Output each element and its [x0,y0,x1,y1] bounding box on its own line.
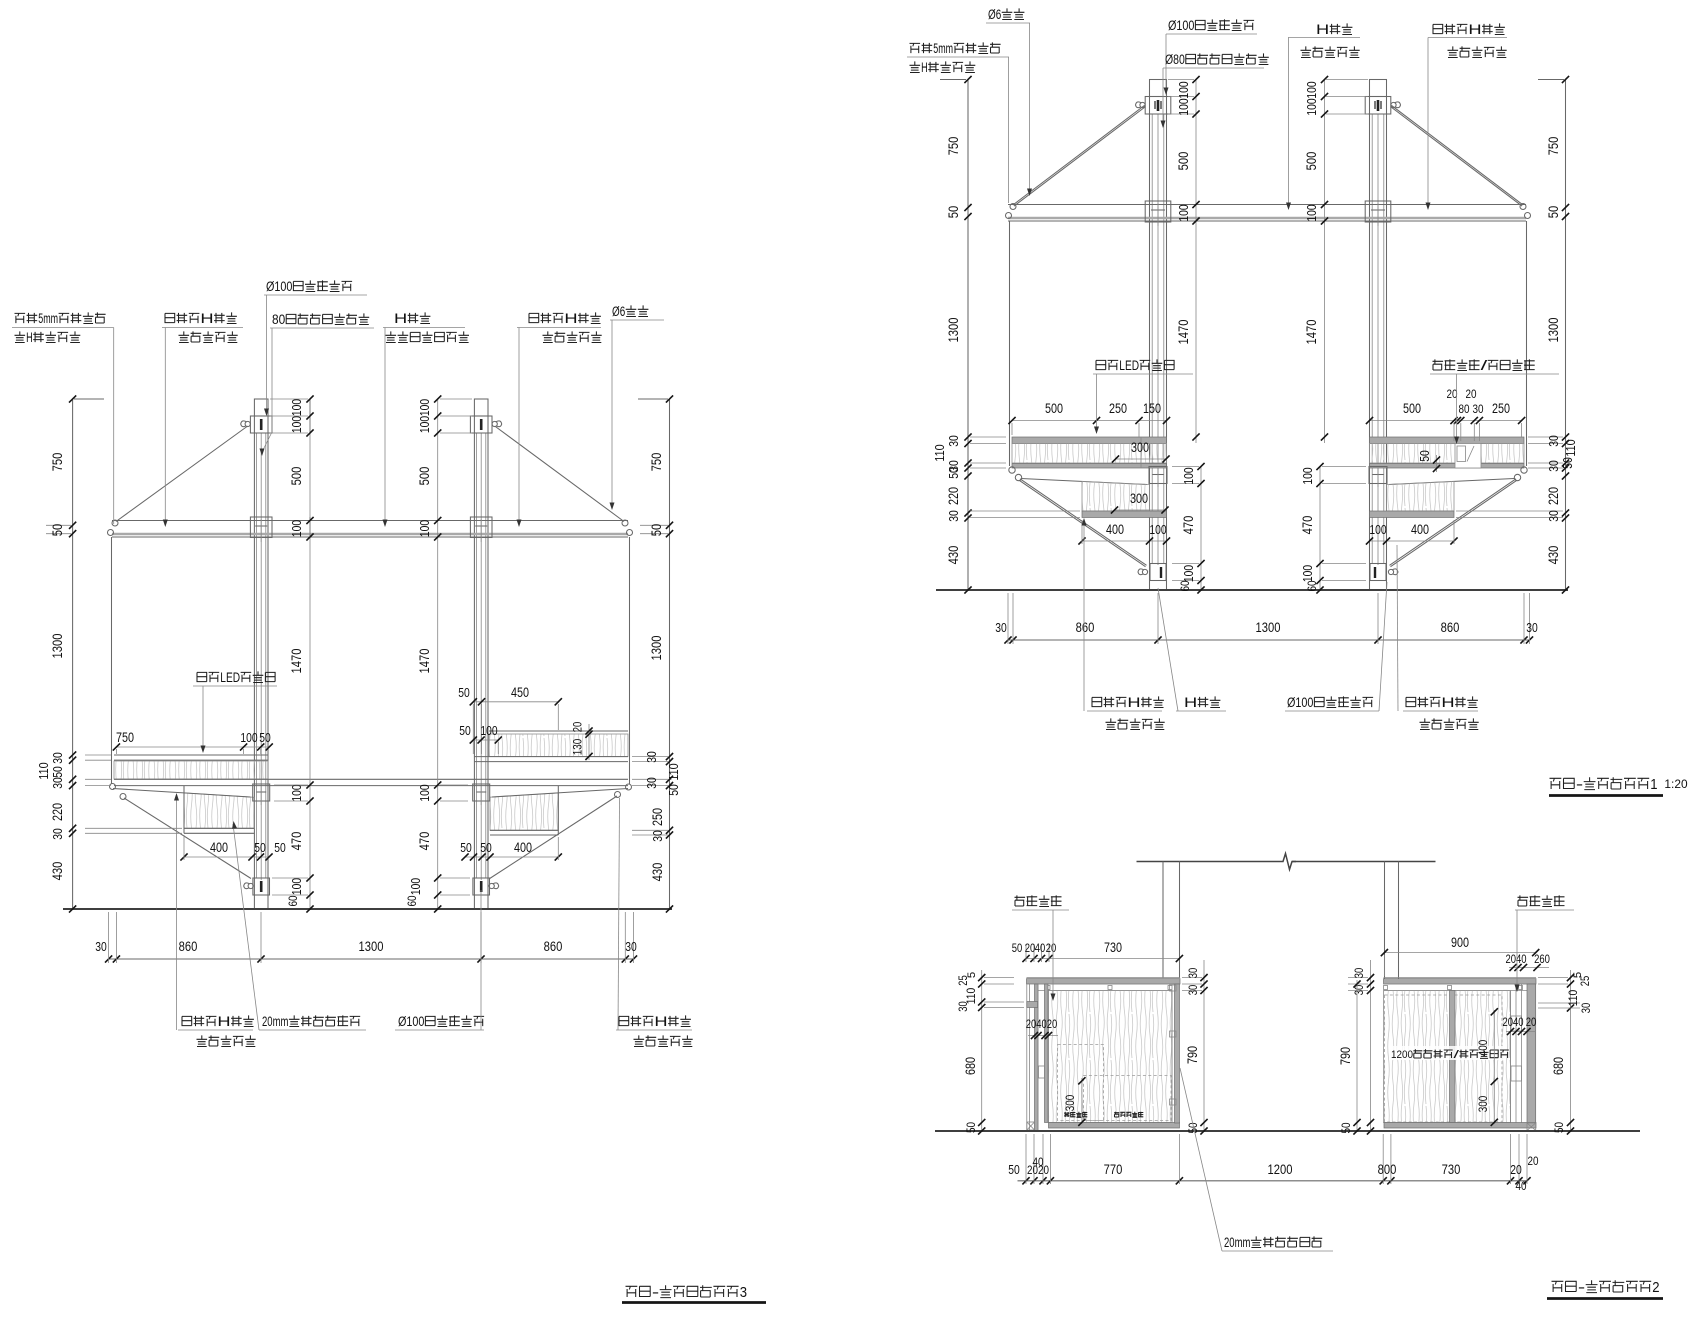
dim column left of right post [437,399,439,909]
svg-text:60: 60 [1178,580,1192,591]
svg-text:50: 50 [1417,450,1432,462]
column top cap [254,399,268,416]
svg-text:110: 110 [666,763,681,780]
svg-text:1300: 1300 [359,938,384,954]
svg-text:30: 30 [956,1001,970,1012]
svg-text:30: 30 [1352,967,1366,978]
svg-text:2040: 2040 [1503,1015,1524,1029]
steel plate under counter [1370,464,1525,469]
svg-text:H: H [1127,695,1140,710]
dim 100/400 right apron [1370,540,1455,542]
svg-text:H: H [26,330,33,345]
svg-text:110: 110 [932,444,947,461]
svg-text:110: 110 [36,762,51,779]
svg-text:220: 220 [946,487,961,505]
LED groove line [1140,437,1142,468]
svg-text:400: 400 [210,840,228,855]
svg-text:20mm: 20mm [1224,1235,1250,1250]
dim column left of right post [1324,80,1326,444]
svg-text:Ø6: Ø6 [612,304,625,319]
svg-text:30: 30 [50,752,65,764]
cabinet door panel right [1171,991,1173,1123]
left counter top slab [114,754,268,756]
lower tie rod left [1019,480,1146,567]
dim column right of left post [309,399,311,433]
bottom dim row [1018,1180,1528,1182]
svg-text:150: 150 [1143,401,1161,416]
svg-text:20: 20 [1047,1017,1058,1031]
dim 400/300 fridge [1493,1010,1495,1124]
leader to left tip [113,328,115,525]
bottom cap sleeve [1150,564,1166,581]
dim stack right [669,399,671,909]
svg-text:-: - [652,1285,659,1301]
left apron wood panel [184,793,254,828]
svg-text:50: 50 [460,840,472,855]
svg-text:H: H [921,60,928,75]
left cabinet counter slab [1027,979,1181,984]
ground line [935,1130,1640,1132]
svg-text:40: 40 [1516,1179,1527,1193]
svg-text:50: 50 [666,784,681,796]
svg-text:1300: 1300 [945,317,961,342]
svg-text:30: 30 [1546,435,1561,447]
cabinet floor slab [1384,1123,1536,1129]
lower tie rod right [1390,479,1517,566]
dim 130/20 right band [588,724,590,760]
svg-text:2020: 2020 [1027,1163,1049,1177]
wall socket [1039,1066,1045,1078]
svg-text:30: 30 [1186,967,1200,978]
dim 790/50 left [1356,980,1358,1131]
svg-text:100: 100 [240,730,257,745]
label: custom 5mm steel plate welded to H steel [15,313,26,323]
dashed appliance B (pump) [1084,1076,1172,1121]
title elevation 3 [626,1286,638,1297]
right counter raised wood band [489,734,628,757]
svg-text:100: 100 [1176,98,1191,115]
svg-text:30: 30 [625,939,637,954]
svg-text:400: 400 [1106,522,1124,537]
sleeve connector box top (D100) [470,416,492,433]
svg-text:30: 30 [1546,510,1561,522]
counter slab (gray) [1012,437,1167,444]
svg-text:220: 220 [1546,487,1561,505]
sleeve connector at counter [1149,467,1167,484]
svg-text:5mm: 5mm [933,41,953,56]
column top cap [1370,80,1387,97]
dim 50/100 right counter [473,739,498,741]
base X block [1027,1122,1035,1130]
beam end pins left [112,520,118,526]
dim 300 lower left [1115,509,1166,511]
svg-text:-: - [1578,1280,1585,1296]
svg-text:30: 30 [995,620,1007,635]
svg-text:100: 100 [480,723,497,738]
svg-text:30: 30 [644,751,659,763]
dim 300 upper left [1116,458,1167,460]
svg-text:H: H [564,311,577,326]
column (80 round, white fluorocarbon) [473,416,475,909]
svg-text:100: 100 [289,399,304,416]
dim right of left cabinet [1203,960,1205,1131]
right cabinet counter slab [1384,979,1537,984]
right counter slab [474,756,628,758]
svg-text:1470: 1470 [288,648,304,673]
beam end pins left [1010,204,1016,210]
label: variable section H steel welded to post (top left) [165,313,175,322]
svg-text:30: 30 [644,777,659,789]
svg-text:400: 400 [514,840,532,855]
ceiling beam line with break [1137,861,1280,863]
svg-text:100: 100 [1176,204,1191,221]
slanted steel plate left [1021,479,1147,485]
svg-text:300: 300 [1130,491,1148,506]
svg-text:50: 50 [49,524,65,537]
right hanging column [1384,862,1386,980]
svg-text:-: - [1576,777,1583,793]
counter slab (gray) [1370,437,1525,444]
sleeve connector box top [1365,97,1391,115]
tiny equipment texts [1064,1112,1069,1117]
sleeve connector at beam [250,517,272,538]
svg-text:750: 750 [116,730,134,745]
dim row top left cabinet [1026,958,1179,960]
sleeve connector at counter [473,784,490,801]
dim 400/50/50 left apron [184,856,269,858]
svg-text:50: 50 [254,840,266,855]
svg-text:H: H [1184,695,1197,710]
svg-text:100: 100 [1304,81,1319,98]
svg-text:LED: LED [220,670,240,685]
svg-text:H: H [200,311,213,326]
middle divider [1450,991,1456,1123]
svg-text:100: 100 [289,878,304,895]
right cabinet under-rail [1384,983,1528,985]
label: concealed LED strip [1096,360,1106,369]
dim 50/450 right counter [473,701,558,703]
svg-text:/: / [1481,358,1488,373]
svg-text:500: 500 [416,467,432,486]
svg-text:2: 2 [1652,1280,1659,1296]
svg-text:H: H [654,1014,667,1029]
bottom cap sleeve [473,878,490,895]
svg-text:50: 50 [480,840,492,855]
svg-text:470: 470 [1299,516,1315,535]
right shelf slab [1370,511,1455,518]
svg-text:750: 750 [945,137,961,156]
svg-text:30: 30 [50,828,65,840]
svg-text:30: 30 [95,939,107,954]
svg-text:60: 60 [405,895,419,906]
svg-text:50: 50 [648,524,664,537]
svg-text:1470: 1470 [416,648,432,673]
svg-text:1200: 1200 [1391,1049,1413,1061]
svg-text:110: 110 [1566,990,1580,1006]
svg-text:50: 50 [459,723,471,738]
svg-text:1300: 1300 [1256,619,1281,635]
left apron wood [1082,481,1150,511]
svg-text:750: 750 [49,453,65,472]
svg-text:30: 30 [1526,620,1538,635]
svg-text:100: 100 [1369,522,1386,537]
svg-text:25: 25 [1578,975,1592,986]
svg-text:30: 30 [1546,460,1561,472]
svg-text:500: 500 [1403,401,1421,416]
svg-text:220: 220 [50,803,65,821]
steel plate under counter [1012,464,1167,469]
svg-text:1: 1 [1650,777,1657,793]
svg-text:30: 30 [650,830,665,842]
svg-text:250: 250 [1492,401,1510,416]
svg-text:430: 430 [1545,546,1561,565]
left cabinet top line [1027,977,1181,979]
svg-text:50: 50 [945,206,961,219]
svg-text:50: 50 [458,685,470,700]
svg-text:20: 20 [1526,1015,1537,1029]
svg-text:500: 500 [1175,152,1191,171]
svg-text:30: 30 [1579,1002,1593,1013]
dim 20/40/20 right wall [1506,1031,1536,1033]
H beam (100) [112,520,628,522]
svg-text:470: 470 [288,832,304,851]
lower tie rod right [490,796,617,879]
svg-text:750: 750 [648,453,664,472]
drawing: front bar section 1 [907,7,1688,796]
sleeve connector at counter [253,784,270,801]
svg-text:100: 100 [417,520,432,537]
svg-text:100: 100 [1149,522,1166,537]
svg-text:80: 80 [272,312,285,327]
svg-text:730: 730 [1104,940,1122,955]
svg-text:Ø6: Ø6 [988,7,1001,22]
svg-text:860: 860 [1441,619,1460,635]
svg-text:20: 20 [571,721,585,732]
svg-text:50: 50 [946,467,961,479]
dim 50 right slab [1436,455,1438,472]
label: variable section H steel [1433,24,1443,33]
svg-text:25: 25 [956,975,970,986]
svg-text:1300: 1300 [648,635,664,660]
dim 300 pump [1081,1078,1083,1124]
label: concealed LED strip [197,672,207,681]
svg-text:H: H [1441,695,1454,710]
svg-text:50: 50 [50,766,65,778]
right cabinet top line [1384,977,1537,979]
svg-text:H: H [1468,22,1481,37]
dim column right of left post [1195,80,1197,444]
bottom label: variable section H steel (left) [1092,697,1102,706]
H beam [1008,204,1526,206]
right apron wood [1387,481,1455,511]
column (80 round, white fluorocarbon) [253,416,255,909]
svg-text:Ø100: Ø100 [266,279,292,294]
beam end pins right [622,520,628,526]
svg-text:400: 400 [1411,522,1429,537]
svg-text:20: 20 [1510,1162,1522,1177]
dim row mid wall [1028,1035,1058,1037]
outer edge verticals [111,537,113,784]
svg-text:50: 50 [1339,1122,1353,1133]
svg-text:50: 50 [259,730,271,745]
ground line [936,589,1568,591]
svg-text:50: 50 [1012,941,1023,955]
svg-text:100: 100 [408,878,423,895]
counter tip pins right [1521,467,1527,473]
sleeve connector at counter [1369,467,1387,484]
svg-text:40: 40 [1036,1017,1047,1031]
svg-text:450: 450 [511,685,529,700]
svg-text:50: 50 [1552,1122,1566,1133]
svg-text:100: 100 [1300,565,1315,582]
svg-text:LED: LED [1119,358,1139,373]
svg-text:100: 100 [1181,467,1196,484]
svg-text:250: 250 [1109,401,1127,416]
bottom dim row [1008,639,1530,641]
svg-text:430: 430 [649,863,665,882]
lower tie rod left [124,798,251,879]
left cabinet under-rail [1035,983,1173,985]
cabinet floor slab [1049,1123,1180,1129]
title section 1 [1550,778,1562,789]
socket recess right counter [1455,444,1481,469]
svg-text:30: 30 [946,510,961,522]
steel plate double line counter level [114,778,628,780]
svg-text:H: H [1316,22,1329,37]
svg-text:100: 100 [289,520,304,537]
bottom cap sleeve [253,878,270,895]
svg-text:5mm: 5mm [38,311,58,326]
svg-text:300: 300 [1063,1095,1077,1111]
drawing: front bar section 2 [935,854,1663,1299]
svg-text:680: 680 [1551,1057,1566,1075]
drawing: front bar side elevation 3 [12,279,766,1303]
svg-text:Ø100: Ø100 [1168,18,1194,33]
leader up to plate [176,796,178,1030]
svg-text:Ø100: Ø100 [398,1014,424,1029]
svg-text:110: 110 [1563,439,1578,456]
dim lower right of left post [1200,467,1202,591]
svg-text:1300: 1300 [49,633,65,658]
svg-text:50: 50 [274,840,286,855]
svg-text:860: 860 [544,938,563,954]
right apron wood panel [490,793,558,830]
svg-text:100: 100 [417,416,432,433]
sleeve connector at beam [470,517,492,538]
svg-text:40: 40 [1035,941,1046,955]
label: custom 5mm plate [910,43,921,53]
left cabinet outer side panel [1026,984,1028,1131]
dim 500/250/150 left counter [1012,420,1167,422]
tie rod top left (D6) [116,426,248,522]
svg-text:100: 100 [289,416,304,433]
slanted steel plate right [1389,479,1514,485]
bottom cap sleeve [1370,564,1386,581]
svg-text:30: 30 [1473,402,1484,416]
svg-text:470: 470 [416,832,432,851]
svg-text:20: 20 [1528,1154,1539,1168]
dashed fridge outline [1385,995,1503,1122]
counter tip pins left [1009,467,1015,473]
svg-text:1300: 1300 [1545,317,1561,342]
svg-text:730: 730 [1442,1161,1461,1177]
svg-text:100: 100 [417,399,432,416]
left cabinet wall layers [1035,984,1039,1131]
dim 750/100/50 left counter [116,746,269,748]
svg-text:130: 130 [571,739,585,755]
svg-text:50: 50 [1560,457,1575,469]
dim 2040/260 top right [1509,967,1549,969]
dim stack left [72,399,74,909]
bottom dim row [109,958,634,960]
counter wood band [1370,444,1525,464]
base X block right [1527,1123,1536,1131]
svg-text:430: 430 [945,546,961,565]
sleeve connector box top [1145,97,1171,115]
sleeve connector at beam [1365,201,1391,222]
svg-text:20mm: 20mm [262,1014,288,1029]
left hanging column [1162,862,1164,979]
svg-text:260: 260 [1534,952,1550,966]
socket boxes on right wall [1511,1016,1522,1031]
svg-text:900: 900 [1451,935,1469,950]
column (80 round) [1369,97,1371,591]
counter wood band [1012,444,1167,464]
svg-text:30: 30 [1186,984,1200,995]
label: five-hole socket / network socket [1433,359,1444,370]
dim 400/50/50 right apron [465,856,558,858]
column (80 round) [1149,97,1151,591]
beam end pins right [1520,204,1526,210]
svg-text:20: 20 [1046,941,1057,955]
svg-text:Ø80: Ø80 [1165,52,1185,67]
steel plate slanted right [492,789,628,798]
dim left of right cabinet [1370,960,1372,1131]
sleeve connector box top (D100) [250,416,272,433]
label: five hole socket right [1518,895,1529,906]
svg-text:100: 100 [1300,467,1315,484]
dim lower left of right post [1319,467,1321,591]
tie rod top left [1013,105,1145,204]
sleeve connector at beam [1145,201,1171,222]
svg-text:790: 790 [1338,1047,1353,1065]
column top cap [1150,80,1167,97]
bottom label: variable section H steel (right) [1406,697,1416,706]
svg-text:Ø100: Ø100 [1287,695,1313,710]
svg-text:750: 750 [1545,137,1561,156]
svg-text:1200: 1200 [1268,1161,1293,1177]
dashed appliance A [1058,1045,1104,1121]
steel plate slanted left [113,789,250,798]
svg-text:60: 60 [286,895,300,906]
tie rod top right [1391,107,1523,207]
bottom label: variable section H steel welded to post (left) [182,1016,192,1025]
svg-text:790: 790 [1185,1046,1200,1064]
svg-text:800: 800 [1378,1161,1397,1177]
svg-text:300: 300 [1131,440,1149,455]
dim stack left [967,80,969,591]
svg-text:400: 400 [1476,1040,1490,1056]
ground line [63,908,672,910]
svg-text:100: 100 [1176,81,1191,98]
svg-text:100: 100 [1304,204,1319,221]
svg-text:470: 470 [1180,516,1196,535]
svg-text:500: 500 [1303,152,1319,171]
svg-text:770: 770 [1104,1161,1123,1177]
svg-text:250: 250 [650,808,665,826]
svg-text:300: 300 [1476,1096,1490,1112]
rod anchor pin [492,421,502,427]
